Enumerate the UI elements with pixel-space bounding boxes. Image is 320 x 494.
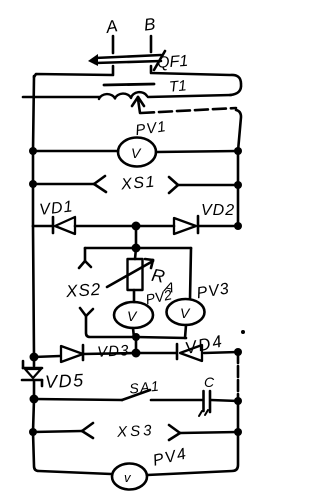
wire left rail VD2 row to VD3 row [33,226,34,357]
wire PV1 to right rail [156,151,238,152]
wire right branch down to PV3 [190,248,191,299]
wire left rail to PV1 [33,150,118,153]
wire T1 tap (dashed) [141,108,236,113]
svg-text:SA1: SA1 [128,377,160,396]
wire middle section bottom bar [136,337,186,338]
node junction right VD2 [234,222,242,230]
voltmeter PV2 [114,302,153,328]
node junction bottom bar [132,333,140,341]
socket XS3 left contact [33,423,93,438]
wire A pole to left rail [34,66,113,77]
node junction VD1-VD2 center [132,222,141,231]
node junction middle top [132,244,141,253]
socket XS1 right contact [169,177,238,193]
wire right rail PV1 to XS1 [237,151,240,185]
diode VD3 [34,345,136,362]
node junction left XS3 [29,428,37,436]
wire B terminal lead [150,36,153,52]
node junction right PV1 [234,147,242,155]
svg-text:v: v [124,470,132,485]
svg-text:A: A [104,16,119,37]
svg-text:VD1: VD1 [39,198,75,218]
node junction right XS3 [234,428,242,436]
wire A terminal lead [112,36,115,53]
svg-text:PV4: PV4 [151,445,189,469]
socket XS2 bottom contact [80,308,136,337]
svg-text:C: C [204,374,215,390]
wire PV3 bottom to bar [185,325,186,338]
socket XS2 top contact [79,248,91,268]
wire winding left end to left rail [23,96,100,99]
svg-text:PV3: PV3 [195,280,231,302]
capacitor C [204,391,239,412]
zener diode VD5 [22,357,42,399]
wire winding right end to B corner [148,95,231,97]
svg-text:XS1: XS1 [119,173,156,193]
node junction main wire center [132,349,141,358]
wire right rail C row to XS3 [237,401,240,432]
wire resistor to PV2 [133,290,136,302]
node junction left XS1 [29,180,37,188]
voltmeter PV3 [167,299,205,325]
svg-text:V: V [127,308,138,324]
node junction VD5 bottom [30,395,39,404]
node junction left PV1 [29,147,37,155]
resistor RA (adjustable) [107,248,153,290]
transformer T1 [99,84,154,113]
wire bottom right corner [147,432,238,475]
wire right rail top section [236,110,241,151]
wire left rail XS1 to VD1 [32,184,35,226]
svg-text:XS3: XS3 [116,422,155,441]
svg-text:V: V [131,145,142,161]
wire bottom left corner [33,432,111,474]
diode VD2 [136,216,238,234]
voltmeter PV1 [118,138,156,167]
wire bottom bar to main wire [135,337,138,353]
wire right rail VD4 to C row (dashed) [237,352,240,398]
svg-text:R: R [150,265,166,287]
wire left rail C row to XS3 [33,399,34,432]
switch QF1 [88,51,165,70]
node junction right XS1 [234,181,242,189]
wire center node down [135,226,138,248]
svg-text:VD3: VD3 [97,342,130,361]
wire middle section top bar [85,247,191,250]
stray tick marks [199,410,208,416]
svg-text:B: B [143,14,156,34]
voltmeter PV4 [112,464,147,490]
socket XS1 left contact [33,176,106,192]
diode VD4 [136,344,238,361]
node junction right VD4 [234,348,242,356]
label RA [150,265,175,296]
svg-text:VD2: VD2 [201,202,235,219]
ink dot near rail [241,330,245,334]
diode VD1 [33,217,136,234]
svg-text:XS2: XS2 [64,280,101,301]
svg-text:VD5: VD5 [45,370,86,392]
node junction left VD3 [30,353,39,362]
svg-text:QF1: QF1 [157,53,189,72]
switch SA1 [34,390,202,400]
wire right rail XS1 to VD2 [237,185,240,226]
svg-text:T1: T1 [168,77,187,95]
node junction right C row [234,397,242,405]
svg-text:V: V [180,305,191,321]
socket XS3 right contact [169,425,238,440]
wire left rail PV1 to XS1 [32,151,35,184]
wire PV2 bottom to bar [133,328,134,338]
wire left rail top section [33,76,34,151]
wire B pole to right corner [151,66,241,95]
svg-text:PV1: PV1 [134,118,167,139]
